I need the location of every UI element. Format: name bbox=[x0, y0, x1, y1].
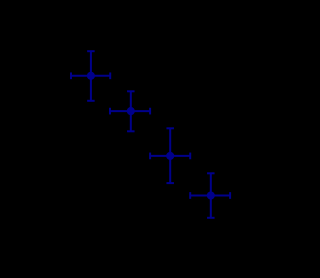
data point 4 with error bars bbox=[190, 173, 230, 218]
data point 1 with error bars bbox=[71, 51, 110, 101]
data point 2 with error bars bbox=[110, 91, 150, 131]
data point 3 with error bars bbox=[150, 128, 190, 183]
